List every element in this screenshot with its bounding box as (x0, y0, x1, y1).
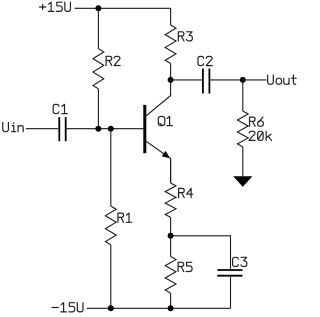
resistor R5 (165, 257, 176, 294)
transistor Q1 emitter arrow (162, 151, 170, 158)
label C1 (53, 104, 67, 113)
junction dot base node / R2 (95, 126, 101, 132)
label C2 (198, 56, 212, 65)
resistor R6 (237, 111, 248, 147)
wire -15V rail (87, 307, 231, 309)
resistor R1 (105, 206, 116, 245)
junction dot -15V rail / R1 (108, 305, 114, 311)
wire C3 bottom stub (230, 277, 232, 309)
wire C1 to base node (67, 128, 144, 130)
transistor Q1 collector lead (146, 80, 170, 116)
label R1 (118, 213, 132, 222)
wire R6 top stub (242, 80, 244, 111)
wire R3 bottom stub (170, 64, 172, 80)
junction dot Vout node (240, 77, 246, 83)
capacitor C2 (203, 69, 210, 94)
wire Vout stub (243, 79, 267, 81)
value label 20k (249, 131, 271, 140)
label Q1 (158, 116, 172, 125)
resistor R3 (165, 25, 176, 64)
transistor Q1 emitter lead (146, 141, 170, 183)
wire R6 to ground (242, 147, 244, 176)
wire collector to C2 (171, 79, 202, 81)
wire R5 bottom stub (170, 293, 172, 308)
resistor R4 (165, 183, 176, 217)
net label -15V (52, 303, 83, 312)
junction dot +15V rail / R2 (95, 5, 101, 11)
label R6 (250, 117, 264, 126)
transistor Q1 base bar (143, 105, 146, 153)
net label Vout (268, 75, 296, 84)
label R4 (179, 188, 193, 197)
net label Vin (3, 123, 23, 132)
ground (233, 176, 252, 187)
resistor R2 (93, 49, 104, 89)
junction dot R4-R5 node (168, 233, 174, 239)
wire R1 bottom stub (110, 245, 112, 308)
wire C2 to Vout node (210, 79, 242, 81)
junction dot collector node (168, 77, 174, 83)
wire R5 top stub (170, 236, 172, 257)
wire R3 top stub (170, 8, 172, 25)
wire R2 bottom stub (97, 89, 99, 129)
junction dot base node / R1 (108, 126, 114, 132)
wire Vin to C1 (26, 128, 58, 130)
wire R4 bottom stub (170, 217, 172, 235)
label R5 (178, 262, 192, 271)
wire emitter to R4 (170, 159, 172, 184)
wire +15V rail (75, 7, 171, 9)
net label +15V (40, 2, 71, 11)
label C3 (233, 257, 247, 266)
junction dot -15V rail / R5 (168, 305, 174, 311)
wire R2 top stub (97, 8, 99, 48)
wire R1 top stub (110, 129, 112, 206)
capacitor C1 (59, 117, 65, 141)
capacitor C3 (217, 270, 242, 276)
wire R4-R5 node to C3 branch (171, 236, 231, 269)
label R3 (178, 32, 192, 41)
label R2 (106, 56, 120, 65)
